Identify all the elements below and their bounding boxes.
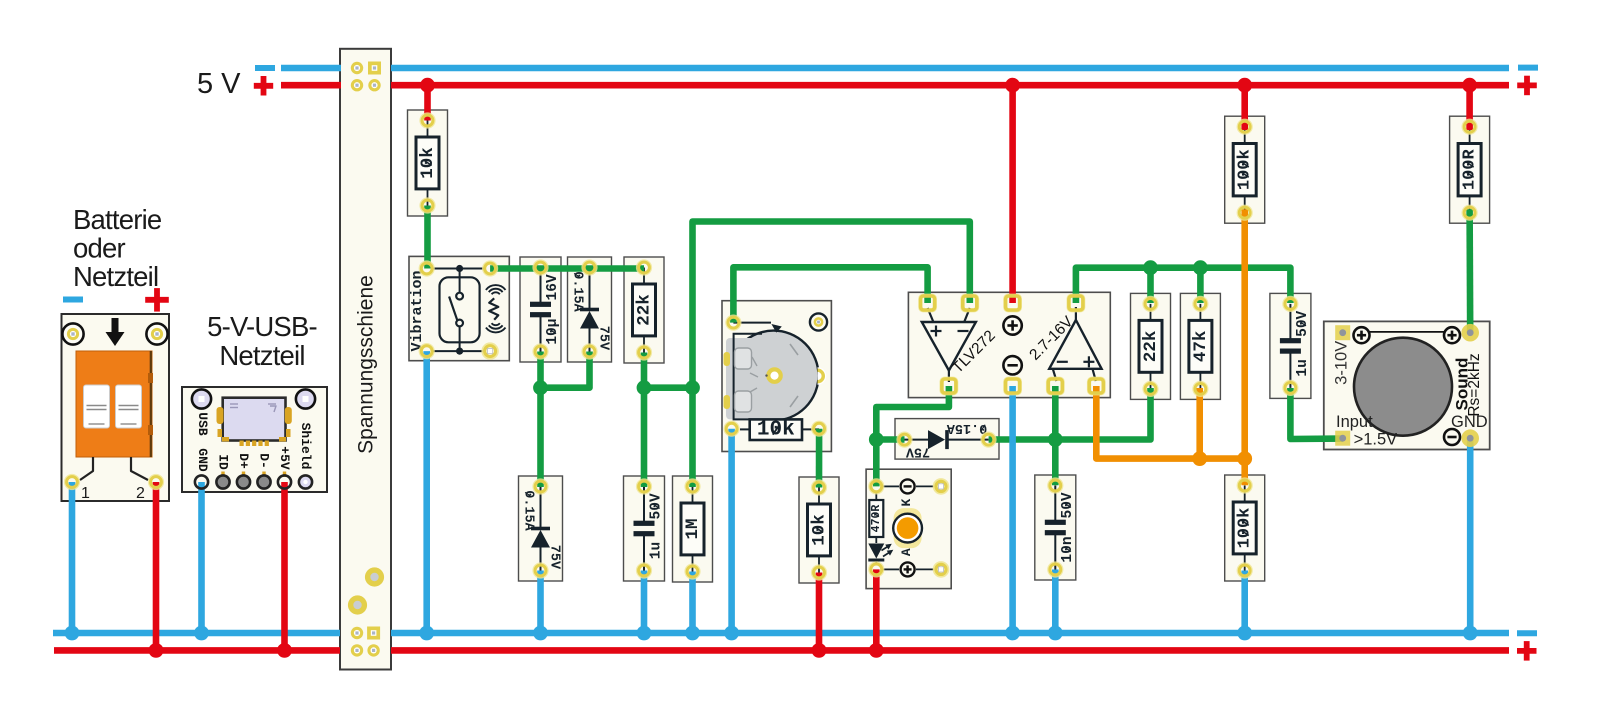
svg-text:75V: 75V (547, 545, 562, 570)
svg-text:16V: 16V (545, 274, 561, 300)
svg-text:2: 2 (136, 485, 145, 502)
svg-text:1: 1 (81, 485, 90, 502)
svg-text:D+: D+ (236, 453, 251, 469)
svg-text:0.15A: 0.15A (946, 420, 987, 435)
svg-text:22k: 22k (635, 294, 655, 326)
svg-text:Vibration: Vibration (409, 270, 426, 351)
svg-text:USB: USB (195, 412, 210, 436)
svg-text:100R: 100R (1461, 149, 1480, 191)
svg-text:Netzteil: Netzteil (73, 261, 158, 292)
svg-text:ID: ID (216, 454, 231, 470)
svg-text:1M: 1M (683, 518, 703, 539)
svg-text:A: A (899, 548, 914, 556)
svg-text:GND: GND (1451, 413, 1488, 431)
svg-text:Netzteil: Netzteil (219, 340, 304, 371)
svg-text:75V: 75V (596, 326, 611, 351)
svg-text:5-V-USB-: 5-V-USB- (207, 311, 317, 342)
svg-text:1u: 1u (649, 542, 665, 559)
svg-text:100k: 100k (1236, 508, 1255, 549)
svg-text:Shield: Shield (298, 423, 313, 470)
svg-text:0.15A: 0.15A (570, 271, 585, 312)
svg-text:Rs=2kHz: Rs=2kHz (1466, 353, 1483, 416)
svg-text:22k: 22k (1141, 331, 1161, 363)
svg-text:>1.5V: >1.5V (1354, 431, 1398, 449)
svg-text:470R: 470R (870, 505, 883, 533)
svg-text:oder: oder (73, 233, 125, 264)
svg-text:Spannungsschiene: Spannungsschiene (355, 275, 378, 454)
svg-text:3-10V: 3-10V (1332, 341, 1350, 385)
svg-text:5 V: 5 V (197, 68, 241, 100)
svg-text:D-: D- (257, 453, 272, 469)
svg-text:47k: 47k (1191, 331, 1211, 363)
svg-text:0.15A: 0.15A (521, 490, 536, 531)
svg-text:100k: 100k (1236, 149, 1255, 190)
svg-text:Batterie: Batterie (73, 204, 162, 235)
svg-text:GND: GND (195, 448, 210, 472)
svg-text:Input: Input (1336, 413, 1373, 431)
svg-text:K: K (899, 499, 914, 507)
svg-text:1u: 1u (1295, 359, 1311, 376)
svg-text:+5V: +5V (277, 446, 292, 470)
